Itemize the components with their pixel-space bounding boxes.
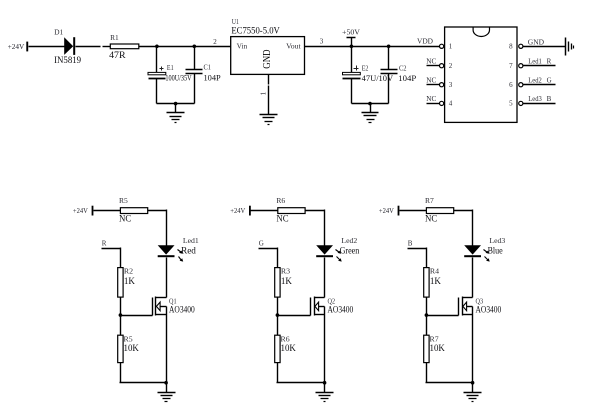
svg-text:R: R bbox=[102, 240, 107, 248]
resistor R1 47R bbox=[109, 34, 139, 61]
svg-text:3: 3 bbox=[320, 38, 324, 46]
svg-text:104P: 104P bbox=[398, 74, 416, 83]
svg-text:R6: R6 bbox=[281, 335, 291, 343]
node junction gate tap bbox=[276, 313, 280, 317]
LED Led2 Green bbox=[316, 237, 359, 262]
svg-text:U1: U1 bbox=[232, 18, 240, 26]
svg-text:R2: R2 bbox=[124, 267, 134, 275]
svg-text:NC: NC bbox=[426, 94, 436, 103]
ground bbox=[167, 104, 185, 123]
wire bbox=[166, 258, 168, 298]
svg-text:1: 1 bbox=[449, 43, 453, 51]
wire bbox=[454, 210, 473, 212]
svg-text:Red: Red bbox=[181, 246, 196, 256]
svg-text:Led3: Led3 bbox=[489, 237, 505, 245]
NC stub pin 2 bbox=[426, 56, 439, 65]
wire bbox=[157, 103, 195, 105]
resistor R2 1K bbox=[118, 267, 135, 297]
pin 8 circle bbox=[519, 44, 523, 48]
NC stub pin 3 bbox=[426, 75, 439, 84]
pin 5 Led3 B wire bbox=[523, 95, 556, 103]
wire gate bbox=[121, 315, 153, 317]
resistor R6 10K bbox=[275, 335, 296, 362]
wire bbox=[139, 46, 231, 48]
svg-text:AO3400: AO3400 bbox=[169, 306, 195, 316]
wire gate bbox=[427, 315, 459, 317]
power +50V port bbox=[342, 27, 361, 46]
pin 3 circle bbox=[440, 83, 444, 87]
svg-text:Vout: Vout bbox=[286, 42, 301, 50]
pin 2 circle bbox=[440, 64, 444, 68]
node junction bbox=[368, 102, 372, 106]
svg-text:AO3400: AO3400 bbox=[476, 306, 502, 316]
svg-text:10K: 10K bbox=[430, 344, 446, 354]
svg-text:104P: 104P bbox=[204, 74, 222, 83]
svg-text:1: 1 bbox=[258, 91, 267, 95]
node junction bbox=[174, 102, 178, 106]
svg-text:R3: R3 bbox=[281, 267, 291, 275]
wire bbox=[277, 363, 279, 383]
transistor Q3 AO3400 bbox=[459, 297, 502, 316]
svg-text:NC: NC bbox=[276, 214, 288, 224]
NC stub pin 4 bbox=[426, 94, 439, 104]
svg-text:7: 7 bbox=[509, 62, 513, 70]
wire bbox=[426, 298, 428, 336]
pin 7 Led1 R wire bbox=[523, 57, 556, 65]
svg-text:R5: R5 bbox=[124, 335, 134, 343]
wire bbox=[400, 210, 427, 212]
op-amp U1 EC7550-5.0V regulator bbox=[231, 18, 305, 74]
wire bbox=[120, 363, 122, 383]
svg-text:Q3: Q3 bbox=[476, 297, 484, 305]
svg-text:G: G bbox=[259, 240, 264, 248]
svg-text:NC: NC bbox=[119, 214, 131, 224]
svg-text:Q2: Q2 bbox=[328, 297, 336, 305]
node junction bbox=[164, 381, 168, 385]
pin 7 circle bbox=[519, 64, 523, 68]
node junction gate tap bbox=[119, 313, 123, 317]
node junction bbox=[471, 381, 475, 385]
pin 1 wire U1 GND bbox=[258, 75, 268, 115]
pin 6 circle bbox=[519, 83, 523, 87]
svg-text:+24V: +24V bbox=[230, 206, 246, 215]
svg-text:R: R bbox=[547, 57, 552, 65]
wire bbox=[120, 298, 122, 336]
svg-text:NC: NC bbox=[425, 214, 437, 224]
resistor R7 NC bbox=[425, 197, 454, 224]
capacitor C2 104P bbox=[381, 47, 417, 104]
pin 8 GND wire bbox=[523, 39, 566, 47]
svg-text:10K: 10K bbox=[124, 344, 140, 354]
svg-text:Led2: Led2 bbox=[528, 76, 542, 84]
svg-text:GND: GND bbox=[528, 39, 544, 47]
wire bbox=[148, 210, 167, 212]
svg-text:C2: C2 bbox=[399, 65, 407, 73]
pin 4 circle bbox=[440, 101, 444, 105]
svg-text:R1: R1 bbox=[110, 34, 119, 42]
capacitor C1 104P bbox=[186, 47, 222, 104]
svg-text:8: 8 bbox=[509, 43, 513, 51]
capacitor E1 100U/35V bbox=[148, 47, 192, 104]
diode D1 IN5819 bbox=[54, 29, 81, 67]
svg-text:G: G bbox=[547, 76, 552, 84]
pin 5 circle bbox=[519, 101, 523, 105]
svg-text:1K: 1K bbox=[281, 277, 292, 287]
ground bbox=[158, 383, 176, 402]
net label R bbox=[102, 240, 121, 268]
svg-text:6: 6 bbox=[509, 81, 513, 89]
node junction C1 tap bbox=[193, 45, 197, 49]
svg-text:Vin: Vin bbox=[237, 42, 248, 50]
svg-text:NC: NC bbox=[426, 75, 436, 84]
wire source down bbox=[472, 315, 474, 383]
ground bbox=[362, 104, 379, 123]
svg-text:R7: R7 bbox=[425, 197, 434, 205]
resistor R6 NC bbox=[276, 197, 305, 224]
IC U2 8-pin package bbox=[445, 27, 517, 122]
resistor R5 NC bbox=[119, 197, 148, 224]
wire gate bbox=[278, 315, 311, 317]
svg-text:R7: R7 bbox=[430, 335, 440, 343]
wire source down bbox=[166, 315, 168, 383]
resistor R5 10K bbox=[118, 335, 139, 362]
svg-text:GND: GND bbox=[262, 49, 273, 69]
resistor R4 1K bbox=[424, 267, 441, 297]
pin 1 circle bbox=[440, 44, 444, 48]
node junction E2 tap bbox=[350, 45, 354, 49]
pin 6 Led2 G wire bbox=[523, 76, 556, 84]
svg-text:4: 4 bbox=[449, 100, 453, 108]
svg-text:+50V: +50V bbox=[342, 27, 361, 36]
svg-text:R6: R6 bbox=[276, 197, 285, 205]
node junction C2 tap bbox=[387, 45, 391, 49]
ground bbox=[260, 115, 278, 125]
svg-text:D1: D1 bbox=[54, 29, 64, 37]
resistor R3 1K bbox=[275, 267, 292, 297]
wire bbox=[306, 210, 325, 212]
svg-text:+24V: +24V bbox=[8, 42, 25, 51]
svg-text:NC: NC bbox=[426, 56, 436, 65]
svg-text:R4: R4 bbox=[430, 267, 440, 275]
ground bbox=[316, 383, 334, 402]
svg-text:Led1: Led1 bbox=[183, 237, 199, 245]
transistor Q1 AO3400 bbox=[153, 297, 195, 316]
svg-text:47R: 47R bbox=[109, 51, 126, 61]
LED Led1 Red bbox=[158, 237, 200, 262]
wire bbox=[94, 210, 121, 212]
svg-text:100U/35V: 100U/35V bbox=[165, 74, 191, 83]
net +24V port (Led3 driver) bbox=[379, 206, 400, 216]
svg-text:B: B bbox=[408, 240, 413, 248]
wire Vout to VDD bbox=[305, 46, 440, 48]
net label G bbox=[259, 240, 278, 268]
capacitor E2 47U/10V bbox=[343, 47, 394, 104]
ground bbox=[464, 383, 482, 402]
wire bbox=[352, 103, 389, 105]
svg-text:1K: 1K bbox=[430, 277, 441, 287]
net +24V input port bbox=[8, 42, 29, 52]
wire bbox=[76, 46, 101, 48]
svg-text:Led2: Led2 bbox=[341, 237, 357, 245]
wire bbox=[426, 363, 428, 383]
svg-text:AO3400: AO3400 bbox=[328, 306, 354, 316]
svg-text:Blue: Blue bbox=[488, 246, 503, 256]
svg-text:R5: R5 bbox=[119, 197, 128, 205]
wire source down bbox=[324, 315, 326, 383]
svg-text:Led3: Led3 bbox=[528, 95, 542, 103]
svg-text:C1: C1 bbox=[204, 64, 212, 72]
svg-text:EC7550-5.0V: EC7550-5.0V bbox=[231, 27, 280, 37]
svg-text:E2: E2 bbox=[362, 65, 369, 73]
wire bbox=[103, 46, 111, 48]
svg-text:+24V: +24V bbox=[73, 206, 89, 215]
ground sideways bbox=[566, 38, 574, 56]
node junction E1 tap bbox=[155, 45, 159, 49]
resistor R7 10K bbox=[424, 335, 445, 362]
wire bbox=[251, 210, 278, 212]
svg-text:10K: 10K bbox=[281, 344, 297, 354]
wire bbox=[277, 298, 279, 336]
svg-text:VDD: VDD bbox=[417, 38, 433, 46]
wire bbox=[472, 258, 474, 298]
svg-text:1K: 1K bbox=[124, 277, 135, 287]
LED Led3 Blue bbox=[464, 237, 506, 262]
wire bbox=[29, 46, 65, 48]
wire bbox=[324, 258, 326, 298]
svg-text:Led1: Led1 bbox=[528, 57, 542, 65]
svg-text:E1: E1 bbox=[167, 64, 174, 72]
svg-text:5: 5 bbox=[509, 100, 513, 108]
net label B bbox=[408, 240, 427, 268]
transistor Q2 AO3400 bbox=[311, 297, 354, 316]
svg-text:2: 2 bbox=[449, 62, 453, 70]
svg-text:3: 3 bbox=[449, 81, 453, 89]
net +24V port (Led1 driver) bbox=[73, 206, 94, 216]
node junction bbox=[323, 381, 327, 385]
svg-text:2: 2 bbox=[213, 38, 217, 46]
svg-text:Green: Green bbox=[340, 246, 360, 256]
svg-text:IN5819: IN5819 bbox=[54, 56, 81, 66]
svg-text:B: B bbox=[547, 95, 552, 103]
net +24V port (Led2 driver) bbox=[230, 206, 251, 216]
node junction gate tap bbox=[425, 313, 429, 317]
svg-text:+24V: +24V bbox=[379, 206, 395, 215]
svg-text:Q1: Q1 bbox=[169, 297, 177, 305]
